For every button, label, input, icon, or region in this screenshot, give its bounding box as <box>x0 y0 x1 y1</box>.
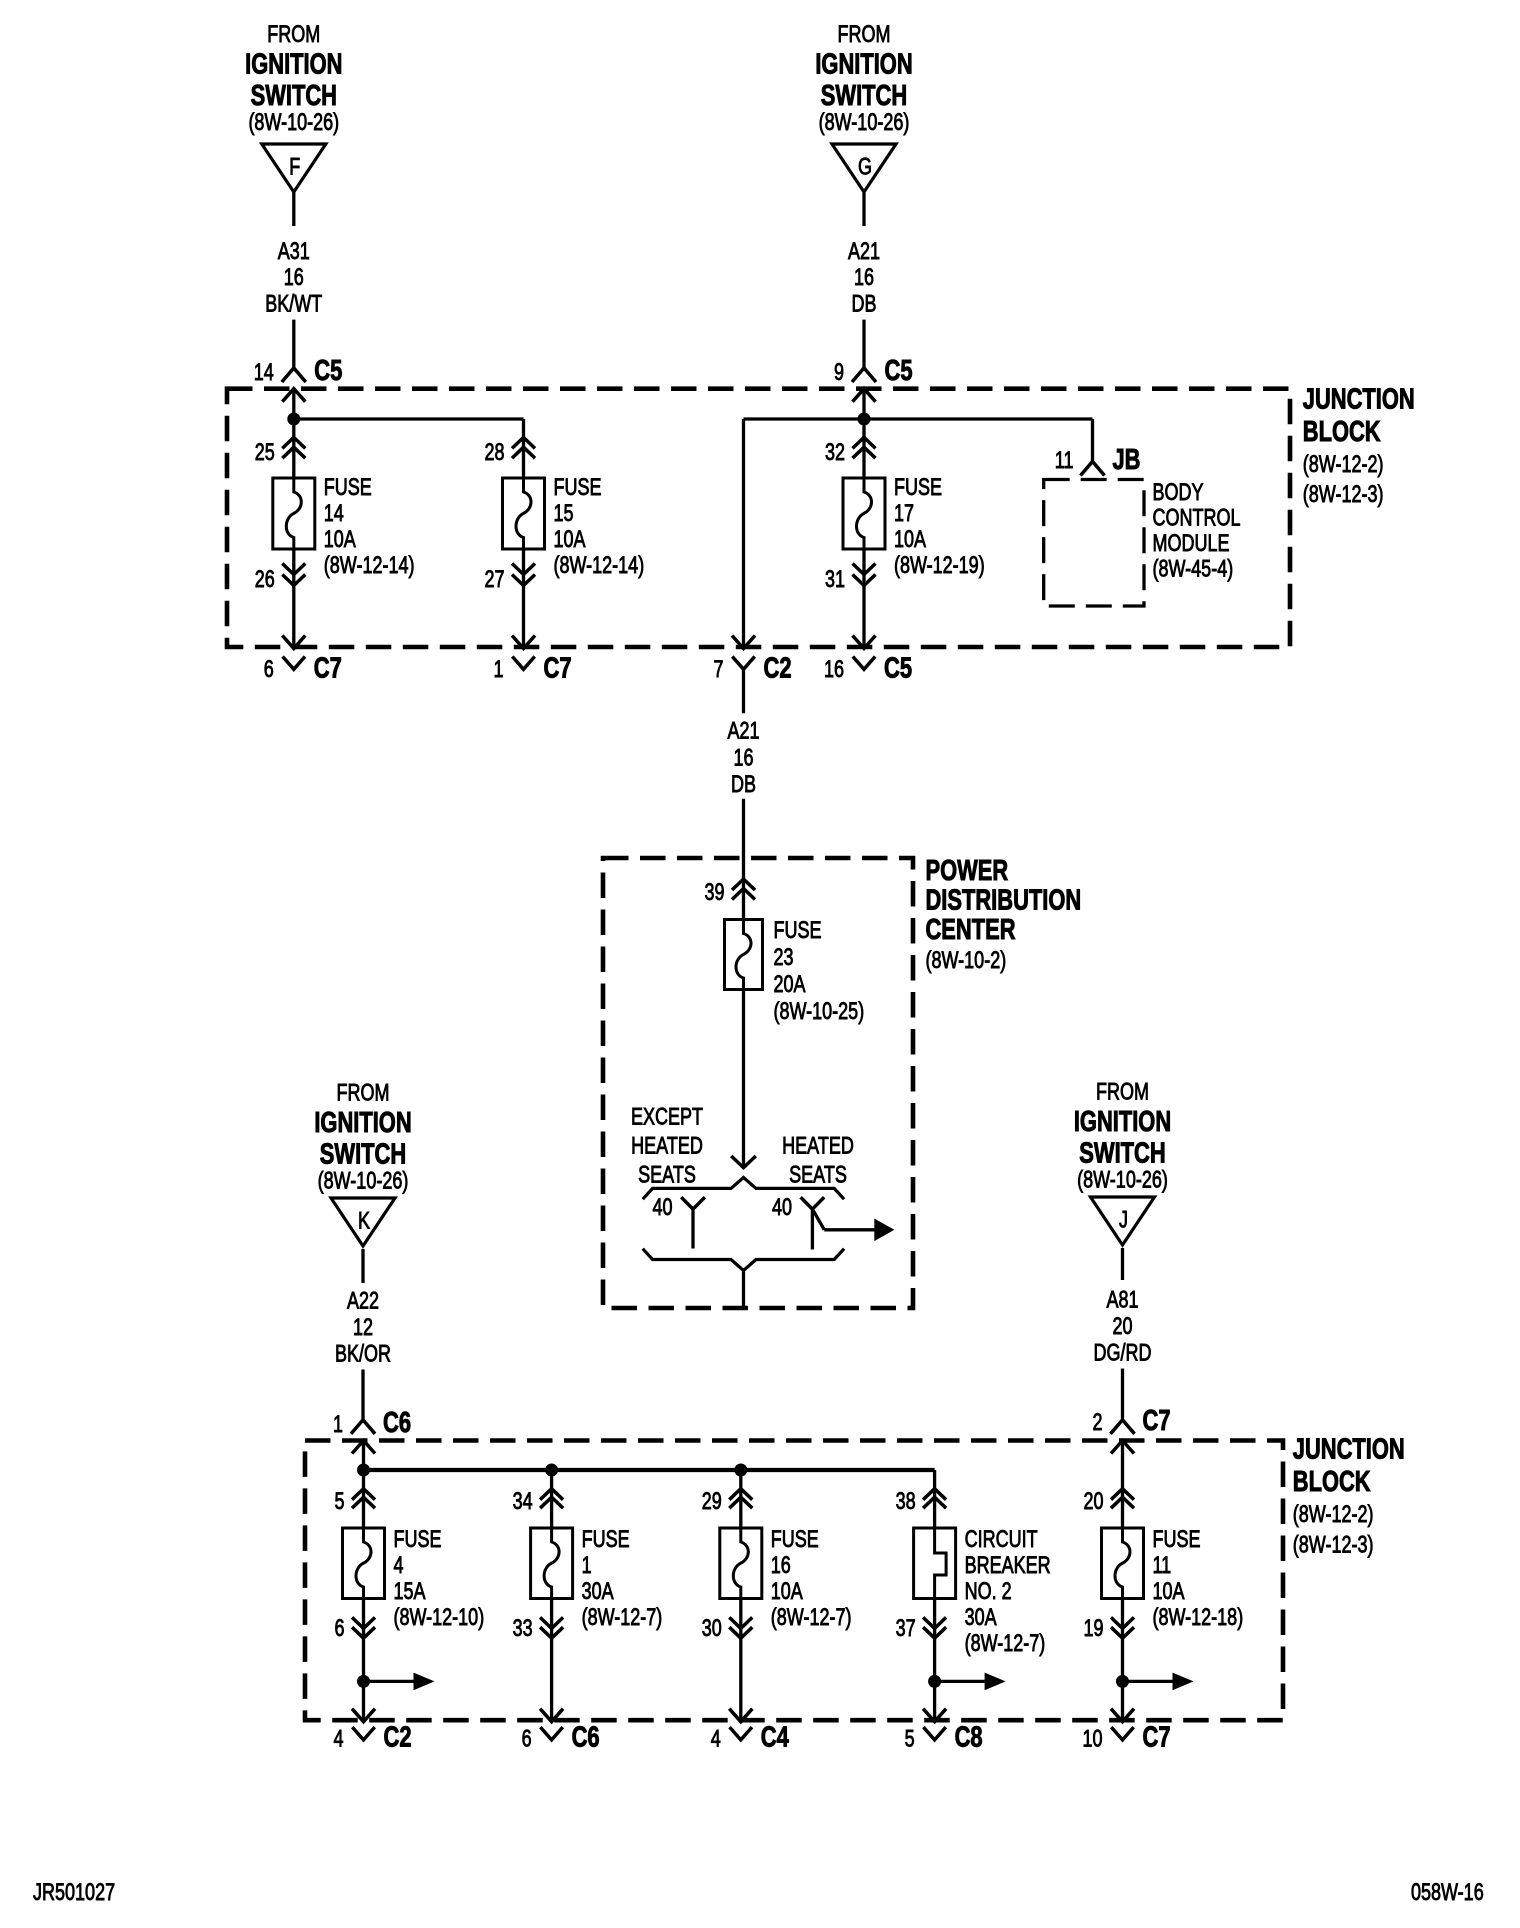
svg-text:10: 10 <box>1083 1726 1103 1753</box>
exit arrow pin 4 <box>729 1709 752 1722</box>
svg-text:CONTROL: CONTROL <box>1153 505 1241 532</box>
svg-text:POWER: POWER <box>926 855 1009 887</box>
svg-text:A21: A21 <box>848 238 880 265</box>
connector C6 pin 6 <box>540 1727 562 1740</box>
svg-text:39: 39 <box>705 879 725 906</box>
svg-text:32: 32 <box>825 439 845 466</box>
terminal 33 (double chevron) <box>540 1617 563 1628</box>
svg-text:FUSE: FUSE <box>1153 1526 1201 1553</box>
svg-text:EXCEPT: EXCEPT <box>631 1104 703 1131</box>
svg-text:SWITCH: SWITCH <box>821 80 907 112</box>
terminal 34 (double chevron) <box>540 1489 563 1500</box>
node: bus splice at fuse 16 <box>734 1464 747 1477</box>
svg-text:14: 14 <box>324 500 344 527</box>
exit arrow pin 4 <box>352 1709 375 1722</box>
svg-text:12: 12 <box>353 1314 373 1341</box>
node: splice with branch arrow <box>1116 1675 1129 1688</box>
svg-text:(8W-10-26): (8W-10-26) <box>248 109 339 136</box>
node: splice to fuse 15 branch <box>287 413 300 426</box>
svg-text:A31: A31 <box>278 238 310 265</box>
svg-text:DB: DB <box>731 771 756 798</box>
svg-text:(8W-10-26): (8W-10-26) <box>318 1168 409 1195</box>
fuse 14 10A <box>273 478 315 549</box>
svg-text:J: J <box>1119 1207 1128 1234</box>
svg-text:1: 1 <box>333 1411 343 1438</box>
connector C4 pin 4 <box>730 1727 752 1740</box>
exit arrow pin 6 <box>540 1709 563 1722</box>
exit arrow pin 10 <box>1111 1709 1134 1722</box>
svg-text:14: 14 <box>254 359 274 386</box>
wire to connector C4 <box>739 1599 742 1721</box>
svg-text:SWITCH: SWITCH <box>1079 1138 1165 1170</box>
terminal 40 (heated seats) <box>801 1197 825 1209</box>
svg-text:25: 25 <box>255 439 275 466</box>
wire A22 from connector K <box>361 1249 364 1283</box>
connector C8 pin 5 <box>923 1727 945 1740</box>
svg-text:30A: 30A <box>582 1578 614 1605</box>
power distribution center dashed outline <box>603 858 913 1308</box>
svg-text:17: 17 <box>894 500 914 527</box>
body control module dashed box <box>1044 480 1144 607</box>
off-page connector J (ignition switch feed J) <box>1091 1197 1155 1245</box>
exit arrow pin 6 <box>282 636 305 649</box>
svg-text:CIRCUIT: CIRCUIT <box>965 1526 1038 1553</box>
svg-text:SWITCH: SWITCH <box>320 1139 406 1171</box>
connector C6 pin 1 (female half) <box>351 1420 375 1434</box>
svg-text:30: 30 <box>702 1615 722 1642</box>
svg-text:C6: C6 <box>383 1407 411 1439</box>
svg-text:15A: 15A <box>394 1578 426 1605</box>
svg-text:33: 33 <box>513 1615 533 1642</box>
svg-text:HEATED: HEATED <box>782 1133 854 1160</box>
svg-text:BODY: BODY <box>1153 479 1204 506</box>
connector C2 pin 7 <box>732 657 754 670</box>
svg-text:29: 29 <box>702 1488 722 1515</box>
svg-text:FUSE: FUSE <box>774 917 822 944</box>
svg-text:F: F <box>289 154 300 181</box>
svg-text:(8W-10-2): (8W-10-2) <box>926 947 1007 974</box>
bus wire from pin 1 splice <box>362 1441 365 1529</box>
svg-text:4: 4 <box>394 1552 404 1579</box>
svg-text:(8W-12-3): (8W-12-3) <box>1303 481 1384 508</box>
svg-text:BREAKER: BREAKER <box>965 1552 1051 1579</box>
svg-text:23: 23 <box>774 944 794 971</box>
svg-text:10A: 10A <box>894 526 926 553</box>
svg-text:4: 4 <box>711 1726 721 1753</box>
svg-text:FUSE: FUSE <box>394 1526 442 1553</box>
fuse 4 <box>343 1528 385 1599</box>
arrow into option split <box>731 1156 756 1168</box>
svg-text:IGNITION: IGNITION <box>245 49 342 81</box>
connector C5 pin 14 (female half) <box>282 368 306 382</box>
terminal 40 (except heated seats) <box>681 1197 705 1209</box>
svg-text:C5: C5 <box>884 653 912 685</box>
svg-text:SEATS: SEATS <box>638 1162 696 1189</box>
svg-text:C6: C6 <box>572 1722 600 1754</box>
svg-text:FROM: FROM <box>267 21 320 48</box>
svg-text:FROM: FROM <box>337 1080 390 1107</box>
wire fuse 14 to connector C7 <box>292 549 295 647</box>
svg-text:(8W-12-18): (8W-12-18) <box>1153 1604 1244 1631</box>
wire to junction block pin 1 <box>361 1370 364 1420</box>
svg-text:7: 7 <box>714 656 724 683</box>
connector C7 pin 1 <box>512 657 534 670</box>
wire down to BCM pin 11 <box>1091 419 1094 462</box>
svg-text:(8W-12-19): (8W-12-19) <box>894 552 985 579</box>
svg-text:2: 2 <box>1093 1409 1103 1436</box>
svg-text:IGNITION: IGNITION <box>314 1107 411 1139</box>
fuse 16 <box>720 1528 762 1599</box>
svg-text:(8W-12-2): (8W-12-2) <box>1293 1501 1374 1528</box>
node: splice to C2 pin 7 wire and BCM <box>858 413 871 426</box>
svg-text:FUSE: FUSE <box>554 474 602 501</box>
terminal 25 (double chevron) <box>282 437 305 448</box>
wire fuse 17 to connector C5 <box>862 549 865 647</box>
svg-text:(8W-10-25): (8W-10-25) <box>774 998 865 1025</box>
svg-text:4: 4 <box>334 1726 344 1753</box>
svg-text:A81: A81 <box>1107 1287 1139 1314</box>
wire to junction block pin 9 <box>862 320 865 368</box>
wire to power distribution center <box>742 799 745 920</box>
svg-text:11: 11 <box>1153 1552 1172 1579</box>
svg-text:A21: A21 <box>728 718 760 745</box>
svg-text:BK/OR: BK/OR <box>335 1341 391 1368</box>
svg-text:(8W-12-10): (8W-12-10) <box>394 1604 485 1631</box>
svg-text:JB: JB <box>1113 444 1141 476</box>
fuse 11 <box>1102 1528 1144 1599</box>
svg-text:15: 15 <box>554 500 574 527</box>
svg-text:(8W-10-26): (8W-10-26) <box>819 109 910 136</box>
svg-text:FUSE: FUSE <box>771 1526 819 1553</box>
wire down to C2 pin 7 <box>742 419 745 647</box>
entry arrow pin 1 (C6) <box>352 1441 375 1454</box>
wire from split to PDC edge <box>742 1271 745 1307</box>
svg-text:SEATS: SEATS <box>789 1162 847 1189</box>
svg-text:FUSE: FUSE <box>582 1526 630 1553</box>
svg-text:NO. 2: NO. 2 <box>965 1578 1012 1605</box>
svg-text:C2: C2 <box>384 1722 412 1754</box>
wire from C2 pin 7 down <box>742 670 745 713</box>
svg-text:DB: DB <box>852 291 877 318</box>
exit arrow pin 1 <box>512 636 535 649</box>
svg-text:6: 6 <box>522 1726 532 1753</box>
svg-text:FUSE: FUSE <box>894 474 942 501</box>
svg-text:16: 16 <box>771 1552 791 1579</box>
connector C7 pin 6 <box>283 657 305 670</box>
svg-text:BLOCK: BLOCK <box>1303 416 1381 448</box>
svg-text:C4: C4 <box>761 1722 789 1754</box>
svg-text:38: 38 <box>896 1488 916 1515</box>
svg-text:1: 1 <box>582 1552 592 1579</box>
svg-text:C5: C5 <box>314 355 342 387</box>
svg-text:C7: C7 <box>1143 1722 1171 1754</box>
svg-text:40: 40 <box>772 1194 792 1221</box>
svg-text:(8W-12-3): (8W-12-3) <box>1293 1531 1374 1558</box>
terminal 37 (double chevron) <box>923 1617 946 1628</box>
off-page connector K (ignition switch feed K) <box>331 1198 395 1246</box>
terminal 28 (double chevron) <box>512 437 535 448</box>
svg-text:(8W-12-2): (8W-12-2) <box>1303 451 1384 478</box>
terminal 20 (double chevron) <box>1111 1489 1134 1500</box>
svg-text:FUSE: FUSE <box>324 474 372 501</box>
bus drop to circuit breaker <box>933 1470 936 1528</box>
svg-text:(8W-12-7): (8W-12-7) <box>965 1630 1046 1657</box>
entry arrow pin 2 (C7) <box>1111 1441 1134 1454</box>
svg-text:HEATED: HEATED <box>631 1133 703 1160</box>
svg-text:(8W-45-4): (8W-45-4) <box>1153 556 1234 583</box>
wire from fuse 23 to split <box>742 990 745 1168</box>
circuit breaker no. 2 <box>914 1528 956 1599</box>
terminal 32 (double chevron) <box>853 437 876 448</box>
connector JB pin 11 (female half) <box>1081 462 1105 476</box>
svg-text:C7: C7 <box>544 653 572 685</box>
connector C5 pin 16 <box>853 657 875 670</box>
wire to connector C2 <box>362 1599 365 1721</box>
svg-text:(8W-12-14): (8W-12-14) <box>324 552 415 579</box>
svg-text:IGNITION: IGNITION <box>815 49 912 81</box>
wire A31 from connector F <box>292 192 295 226</box>
svg-text:20: 20 <box>1113 1313 1133 1340</box>
svg-text:16: 16 <box>734 745 754 772</box>
wire A81 from connector J <box>1121 1248 1124 1280</box>
terminal 29 (double chevron) <box>729 1489 752 1500</box>
wire from pin 2 to fuse 11 <box>1121 1441 1124 1529</box>
svg-text:SWITCH: SWITCH <box>251 80 337 112</box>
terminal 38 (double chevron) <box>923 1489 946 1500</box>
svg-text:BK/WT: BK/WT <box>265 291 322 318</box>
node: splice with branch arrow <box>357 1675 370 1688</box>
fuse 1 <box>531 1528 573 1599</box>
svg-text:34: 34 <box>513 1488 533 1515</box>
svg-text:16: 16 <box>824 656 844 683</box>
node: bus splice at fuse 4 <box>357 1464 370 1477</box>
svg-text:DISTRIBUTION: DISTRIBUTION <box>926 885 1082 917</box>
terminal 39 (double chevron) <box>732 879 755 890</box>
wire to connector C7 <box>1121 1599 1124 1721</box>
svg-text:40: 40 <box>653 1194 673 1221</box>
svg-text:6: 6 <box>335 1615 345 1642</box>
svg-text:C5: C5 <box>885 355 913 387</box>
svg-text:19: 19 <box>1084 1615 1104 1642</box>
fuse 23 20A <box>725 920 763 990</box>
off-page connector F (ignition switch feed F) <box>262 144 326 192</box>
option split bracket (bottom) <box>643 1249 844 1271</box>
wire from pin 14 to fuse 14 <box>292 389 295 478</box>
svg-text:6: 6 <box>264 656 274 683</box>
connector C7 pin 10 <box>1111 1727 1133 1740</box>
svg-text:(8W-12-14): (8W-12-14) <box>554 552 645 579</box>
fuse 15 10A <box>503 478 545 549</box>
terminal 5 (double chevron) <box>352 1489 375 1500</box>
svg-text:(8W-12-7): (8W-12-7) <box>582 1604 663 1631</box>
svg-text:10A: 10A <box>554 526 586 553</box>
svg-text:16: 16 <box>284 264 304 291</box>
svg-text:31: 31 <box>825 566 845 593</box>
exit arrow pin 7 (C2) <box>732 636 755 649</box>
node: bus splice at fuse 1 <box>545 1464 558 1477</box>
junction block (bottom) dashed outline <box>305 1441 1283 1721</box>
svg-text:5: 5 <box>335 1488 345 1515</box>
fuse 17 10A <box>843 478 885 549</box>
wire splice to fuse 15 <box>294 417 524 420</box>
bus drop to fuse 1 <box>550 1470 553 1528</box>
svg-text:DG/RD: DG/RD <box>1094 1340 1152 1367</box>
entry arrow pin 9 <box>853 389 876 402</box>
wire splice across to BCM <box>744 417 1093 420</box>
svg-text:C7: C7 <box>314 653 342 685</box>
bus drop to fuse 16 <box>739 1470 742 1528</box>
svg-text:20: 20 <box>1084 1488 1104 1515</box>
svg-text:JUNCTION: JUNCTION <box>1303 384 1415 416</box>
svg-text:10A: 10A <box>1153 1578 1185 1605</box>
exit arrow pin 16 <box>853 636 876 649</box>
wire A21 from connector G <box>862 192 865 226</box>
option split bracket (top) <box>643 1178 844 1200</box>
svg-text:CENTER: CENTER <box>926 914 1016 946</box>
svg-text:JR501027: JR501027 <box>33 1879 115 1906</box>
svg-text:9: 9 <box>834 359 844 386</box>
svg-text:26: 26 <box>255 566 275 593</box>
svg-text:(8W-12-7): (8W-12-7) <box>771 1604 852 1631</box>
junction block (top) dashed outline <box>227 389 1290 647</box>
wire from pin 9 to fuse 17 <box>862 389 865 478</box>
svg-text:10A: 10A <box>324 526 356 553</box>
svg-text:IGNITION: IGNITION <box>1074 1106 1171 1138</box>
svg-text:28: 28 <box>485 439 505 466</box>
svg-text:BLOCK: BLOCK <box>1293 1466 1371 1498</box>
wire to junction block pin 14 <box>292 320 295 368</box>
svg-text:10A: 10A <box>771 1578 803 1605</box>
wire to connector C8 <box>933 1599 936 1721</box>
svg-text:FROM: FROM <box>838 21 891 48</box>
wire to connector C6 <box>550 1599 553 1721</box>
terminal 6 (double chevron) <box>352 1617 375 1628</box>
terminal 31 (double chevron) <box>853 564 876 575</box>
exit arrow pin 5 <box>923 1709 946 1722</box>
connector C5 pin 9 (female half) <box>852 368 876 382</box>
svg-text:A22: A22 <box>347 1288 379 1315</box>
svg-text:1: 1 <box>494 656 504 683</box>
svg-text:(8W-10-26): (8W-10-26) <box>1077 1167 1168 1194</box>
svg-text:FROM: FROM <box>1096 1079 1149 1106</box>
terminal 30 (double chevron) <box>729 1617 752 1628</box>
wire fuse 15 to connector C7 <box>522 549 525 647</box>
svg-text:K: K <box>358 1208 370 1235</box>
node: splice with branch arrow <box>928 1675 941 1688</box>
connector C7 pin 2 (female half) <box>1111 1420 1135 1434</box>
svg-text:16: 16 <box>854 264 874 291</box>
terminal 19 (double chevron) <box>1111 1617 1134 1628</box>
connector C2 pin 4 <box>352 1727 374 1740</box>
svg-text:11: 11 <box>1055 447 1074 474</box>
svg-text:37: 37 <box>896 1615 916 1642</box>
off-page connector G (ignition switch feed G) <box>832 144 896 192</box>
svg-text:27: 27 <box>485 566 505 593</box>
svg-text:C2: C2 <box>764 653 792 685</box>
entry arrow pin 14 <box>282 389 305 402</box>
terminal 26 (double chevron) <box>282 564 305 575</box>
wire to heated seats circuit (arrow) <box>812 1209 824 1230</box>
svg-text:G: G <box>858 154 872 181</box>
svg-text:30A: 30A <box>965 1604 997 1631</box>
terminal 27 (double chevron) <box>512 564 535 575</box>
svg-text:C7: C7 <box>1143 1405 1171 1437</box>
svg-text:058W-16: 058W-16 <box>1411 1879 1484 1906</box>
svg-text:5: 5 <box>905 1726 915 1753</box>
svg-text:MODULE: MODULE <box>1153 530 1230 557</box>
svg-text:C8: C8 <box>955 1722 983 1754</box>
svg-text:20A: 20A <box>774 971 806 998</box>
svg-text:JUNCTION: JUNCTION <box>1293 1434 1405 1466</box>
wire to junction block pin 2 <box>1121 1369 1124 1420</box>
